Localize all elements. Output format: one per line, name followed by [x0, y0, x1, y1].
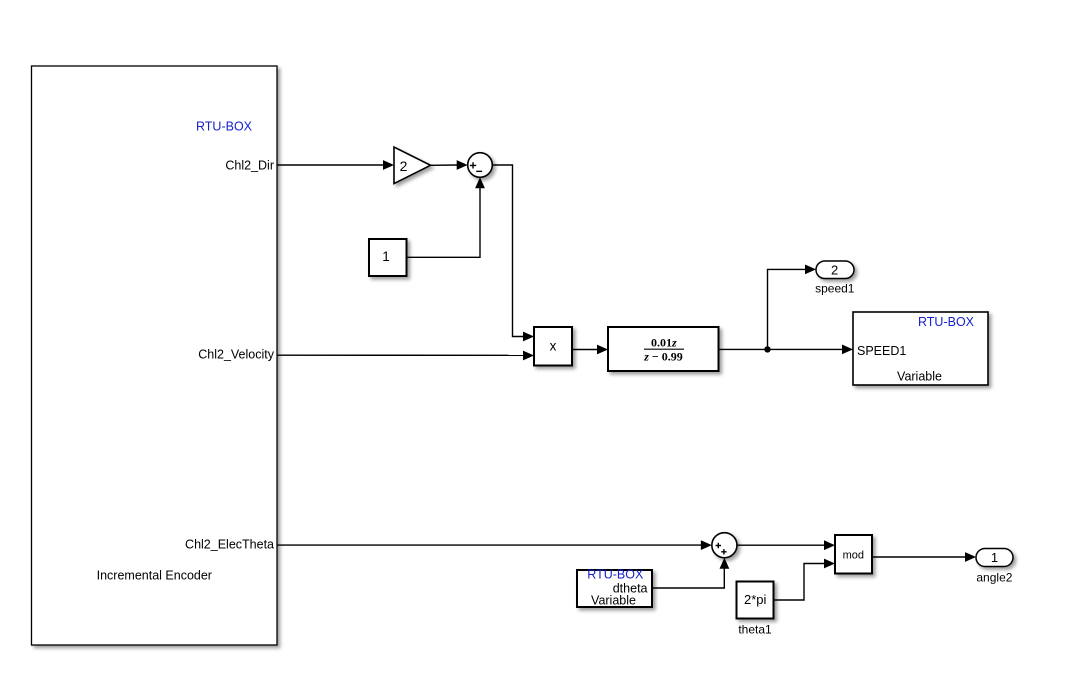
svg-text:RTU-BOX: RTU-BOX — [918, 315, 975, 329]
math function block mod — [835, 535, 872, 574]
svg-text:2: 2 — [400, 158, 408, 174]
wire: Product to Discrete Transfer Fcn — [572, 345, 608, 355]
wire: Gain to Sum1 — [431, 160, 468, 170]
svg-text:theta1: theta1 — [738, 623, 772, 637]
svg-text:x: x — [550, 338, 557, 353]
output port 1 (angle2) — [976, 549, 1013, 585]
svg-text:Chl2_ElecTheta: Chl2_ElecTheta — [185, 538, 274, 552]
svg-text:1: 1 — [382, 249, 390, 264]
wire: Transfer Fcn to SPEED1 with branch junction — [719, 345, 854, 355]
svg-text:mod: mod — [843, 550, 864, 562]
svg-text:Chl2_Velocity: Chl2_Velocity — [198, 348, 274, 362]
wire: Chl2_ElecTheta to Sum2 — [277, 540, 712, 550]
block: Incremental Encoder (subsystem) — [32, 66, 278, 645]
svg-text:z − 0.99: z − 0.99 — [643, 349, 683, 363]
wire: Chl2_Velocity to Product input 2 — [277, 351, 534, 361]
svg-text:RTU-BOX: RTU-BOX — [196, 120, 253, 134]
svg-text:Chl2_Dir: Chl2_Dir — [225, 159, 274, 173]
block: RTU-BOX SPEED1 Variable — [853, 312, 988, 385]
wire: Sum2 to mod input 1 — [737, 540, 835, 550]
gain block (value 2) — [394, 147, 431, 184]
svg-text:Incremental Encoder: Incremental Encoder — [97, 568, 212, 582]
block: RTU-BOX dtheta Variable — [577, 568, 652, 608]
svg-text:angle2: angle2 — [976, 570, 1012, 584]
svg-text:2: 2 — [831, 262, 838, 277]
sum block Sum1 (+ -) — [468, 153, 493, 178]
svg-text:RTU-BOX: RTU-BOX — [587, 568, 644, 582]
svg-text:2*pi: 2*pi — [744, 592, 767, 607]
constant block value 1 — [369, 239, 407, 276]
svg-text:speed1: speed1 — [815, 282, 855, 296]
sum block Sum2 (+ +) — [712, 533, 737, 558]
wire: Chl2_Dir to Gain — [277, 160, 394, 170]
svg-text:0.01z: 0.01z — [651, 335, 677, 349]
output port 2 (speed1) — [815, 261, 855, 296]
constant block 2*pi (theta1) — [737, 582, 774, 637]
svg-text:Variable: Variable — [897, 369, 942, 383]
discrete transfer fcn block 0.01z/(z-0.99) — [608, 327, 719, 371]
wire: mod to out port angle2 — [872, 552, 976, 562]
wire: constant 1 to Sum1 bottom — [407, 177, 485, 257]
wire: Sum1 out, down to Product input 1 — [492, 165, 534, 341]
wire: 2*pi to mod input 2 — [774, 559, 836, 600]
svg-text:SPEED1: SPEED1 — [857, 344, 906, 358]
product block (x) — [534, 327, 572, 366]
svg-text:1: 1 — [991, 550, 998, 565]
wire: dtheta to Sum2 bottom — [652, 558, 729, 588]
svg-text:Variable: Variable — [591, 593, 636, 607]
wire: branch up to out port speed1 — [768, 265, 817, 350]
